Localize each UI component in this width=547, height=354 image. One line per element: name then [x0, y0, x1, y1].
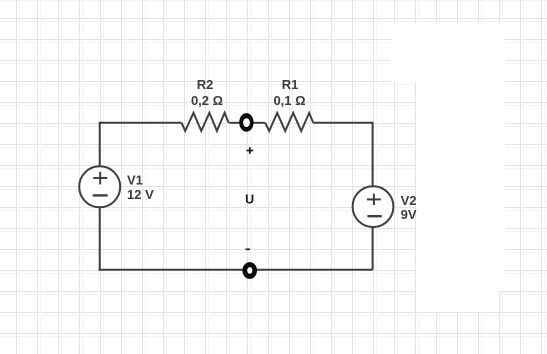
svg-text:V1: V1	[127, 172, 143, 187]
svg-text:9V: 9V	[401, 207, 417, 222]
svg-text:0,2 Ω: 0,2 Ω	[191, 93, 223, 108]
wire right vertical lower	[372, 227, 374, 270]
wire R1 to top-right corner	[313, 122, 372, 124]
V1 minus sign	[93, 194, 108, 196]
source V2 circle	[353, 186, 394, 227]
resistor R1	[265, 113, 313, 131]
V2 plus sign	[367, 194, 381, 205]
V1 plus sign	[93, 172, 107, 185]
svg-text:12 V: 12 V	[127, 187, 154, 202]
V2 minus sign	[367, 215, 381, 217]
svg-text:V2: V2	[401, 193, 417, 208]
svg-text:R2: R2	[197, 77, 214, 92]
svg-text:U: U	[245, 193, 254, 207]
terminal node top (between R2 and R1)	[239, 113, 253, 132]
source V1 circle	[79, 166, 120, 207]
resistor R2	[182, 113, 229, 131]
wire left vertical upper	[99, 122, 101, 167]
wire node to R1	[253, 122, 265, 124]
wire R2 to node	[229, 122, 240, 124]
node label + (top of U)	[246, 147, 253, 154]
wire bottom	[99, 269, 373, 271]
wire left vertical lower	[99, 207, 101, 271]
wire top-left segment	[100, 122, 182, 124]
terminal node bottom	[242, 262, 257, 279]
node label - (bottom)	[245, 248, 250, 250]
svg-text:0,1 Ω: 0,1 Ω	[273, 93, 305, 108]
wire right vertical upper	[372, 122, 374, 187]
svg-text:R1: R1	[282, 77, 299, 92]
